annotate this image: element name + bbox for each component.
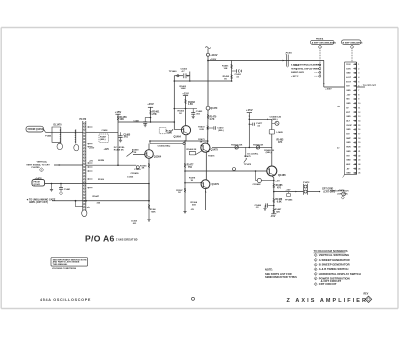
dashed gain box R1460 bbox=[159, 128, 166, 134]
test point TP1485 bbox=[288, 192, 290, 194]
diamond ref 2 bbox=[318, 45, 322, 49]
svg-text:AUX: AUX bbox=[346, 163, 351, 166]
svg-text:→ TO CRT CKT: → TO CRT CKT bbox=[360, 85, 377, 87]
svg-text:+15V: +15V bbox=[147, 102, 154, 106]
connector P1470 pin at y=197.9 bbox=[84, 197, 86, 199]
svg-text:Q1479: Q1479 bbox=[212, 183, 220, 186]
wire x=189 stub bbox=[189, 72, 191, 82]
svg-text:VOLTAGE CONDITIONS: VOLTAGE CONDITIONS bbox=[52, 267, 77, 270]
svg-text:23: 23 bbox=[358, 160, 360, 162]
resistor R1492 bbox=[231, 75, 233, 79]
svg-text:.01: .01 bbox=[256, 207, 260, 209]
legend row 7 bbox=[314, 283, 317, 286]
svg-text:+15V: +15V bbox=[286, 190, 292, 192]
svg-text:Q1485: Q1485 bbox=[278, 173, 286, 177]
connector P1470 pin at y=194.8 bbox=[84, 194, 86, 196]
svg-text:+15V: +15V bbox=[89, 148, 95, 150]
svg-text:A SWEEP GENERATOR: A SWEEP GENERATOR bbox=[319, 258, 350, 262]
legend row 2 bbox=[314, 258, 317, 261]
svg-text:HORIZONTAL DISPLAY MODE: HORIZONTAL DISPLAY MODE bbox=[291, 67, 320, 70]
wire to bulkhead y=132 bbox=[95, 131, 118, 133]
svg-text:Q1464: Q1464 bbox=[174, 136, 182, 139]
potentiometer R1474 bbox=[235, 146, 238, 149]
svg-text:3: 3 bbox=[315, 265, 316, 267]
svg-text:2: 2 bbox=[320, 47, 321, 49]
svg-text:C1458: C1458 bbox=[102, 129, 109, 132]
wire y=81 bbox=[174, 80, 231, 82]
svg-text:(CRT CKT): (CRT CKT) bbox=[338, 194, 348, 196]
terminal circle bbox=[342, 192, 346, 196]
wire to CRT circuit bbox=[307, 191, 320, 193]
wire between coils bbox=[61, 131, 76, 133]
power +15V node bbox=[183, 95, 188, 97]
svg-text:AMPL (CRT CKT): AMPL (CRT CKT) bbox=[29, 201, 48, 204]
svg-text:MATES WITH P1470: MATES WITH P1470 bbox=[330, 190, 349, 193]
wire Q1479 base bbox=[185, 182, 201, 184]
svg-text:GND: GND bbox=[346, 160, 351, 162]
svg-text:-15V: -15V bbox=[270, 215, 276, 218]
svg-text:P/O A6: P/O A6 bbox=[85, 234, 115, 244]
edge connector pin 24 bbox=[353, 163, 356, 165]
svg-text:HORIZONTAL DISPLAY SWITCH: HORIZONTAL DISPLAY SWITCH bbox=[319, 272, 361, 276]
node rail junction bbox=[207, 60, 209, 62]
wire y=171 to Q1485 base bbox=[185, 170, 267, 172]
power +15V node bbox=[148, 106, 153, 108]
legend row 6 bbox=[314, 277, 317, 280]
svg-text:VERTICAL: VERTICAL bbox=[37, 161, 48, 164]
svg-text:C1459: C1459 bbox=[134, 168, 141, 171]
pin arrow at y=127 bbox=[87, 126, 89, 128]
svg-text:-8V: -8V bbox=[346, 168, 350, 170]
svg-text:.001: .001 bbox=[123, 137, 128, 139]
pin arrow at y=167 bbox=[87, 166, 89, 168]
+15V arrow feed bbox=[247, 112, 252, 114]
wire x=149 below unblanking node bbox=[148, 201, 150, 220]
connector P1470 pin at y=148.3 bbox=[84, 148, 86, 150]
connector P1470 pin at y=166.9 bbox=[84, 166, 86, 168]
svg-text:6.8K: 6.8K bbox=[277, 202, 282, 204]
inductor L1485 bbox=[269, 130, 274, 134]
svg-text:8.2K: 8.2K bbox=[200, 129, 205, 131]
svg-text:SWP: SWP bbox=[346, 138, 351, 140]
svg-text:b>: b> bbox=[337, 147, 340, 150]
capacitor C1459 bbox=[136, 166, 139, 169]
svg-text:820: 820 bbox=[276, 211, 280, 213]
edge connector pin 12 bbox=[353, 111, 356, 113]
edge connector pin 22 bbox=[353, 155, 356, 157]
connector P1470 pin at y=129.7 bbox=[84, 129, 86, 131]
diamond ref 1 bbox=[39, 168, 43, 172]
connector P1470 pin at y=176.2 bbox=[84, 175, 86, 177]
svg-text:P1472: P1472 bbox=[303, 181, 310, 184]
wire y=165.2 bbox=[86, 164, 136, 166]
svg-text:(SEL): (SEL) bbox=[100, 139, 106, 141]
delay line coil 1 bbox=[60, 127, 62, 143]
edge connector strip body right bbox=[356, 62, 358, 175]
svg-text:R1474 10K: R1474 10K bbox=[231, 143, 242, 146]
wire y=122 bbox=[118, 121, 174, 123]
svg-text:A SWP (EXTERNAL) BLANKING: A SWP (EXTERNAL) BLANKING bbox=[291, 64, 321, 67]
transistor Q1364 bbox=[145, 150, 154, 159]
transistor Q1485 bbox=[267, 166, 277, 176]
svg-text:15V: 15V bbox=[346, 86, 350, 88]
svg-text:+.6V: +.6V bbox=[275, 180, 280, 182]
selected resistor box R1457 bbox=[99, 134, 109, 142]
svg-text:B SWP UNBLANKG: B SWP UNBLANKG bbox=[343, 41, 363, 44]
svg-text:100K: 100K bbox=[181, 88, 187, 90]
svg-text:3K: 3K bbox=[142, 168, 145, 170]
gate wire y=183.5 bbox=[45, 183, 149, 185]
Q1364 emitter wire down bbox=[148, 158, 150, 201]
edge connector pin 9 bbox=[353, 98, 356, 100]
svg-text:454A OSCILLOSCOPE: 454A OSCILLOSCOPE bbox=[40, 298, 91, 302]
svg-text:75V: 75V bbox=[346, 155, 350, 157]
svg-text:GND: GND bbox=[346, 90, 351, 92]
svg-text:-8V: -8V bbox=[191, 209, 195, 211]
edge connector pin 26 bbox=[353, 172, 356, 174]
edge connector pin 18 bbox=[353, 137, 356, 139]
capacitor C1441 bbox=[60, 184, 62, 188]
potentiometer R1476 bbox=[256, 146, 259, 149]
svg-text:15: 15 bbox=[358, 125, 360, 127]
svg-text:4: 4 bbox=[315, 268, 316, 271]
note box bbox=[51, 258, 88, 267]
svg-text:CR1482: CR1482 bbox=[253, 183, 262, 186]
page border frame (decorative) bbox=[1, 27, 398, 29]
resistor R1487 bbox=[273, 209, 275, 213]
strip bottom closure bbox=[345, 174, 357, 176]
svg-text:P1470: P1470 bbox=[80, 118, 87, 121]
svg-text:2K: 2K bbox=[134, 152, 137, 154]
capacitor C1491 bbox=[232, 70, 236, 72]
svg-text:+ EXT Z: + EXT Z bbox=[291, 76, 299, 78]
svg-text:(SEL): (SEL) bbox=[266, 152, 272, 154]
svg-text:A SWP GEN UNBLANKG: A SWP GEN UNBLANKG bbox=[312, 41, 337, 44]
connector P1470 pin at y=123.5 bbox=[84, 123, 86, 125]
edge connector pin 21 bbox=[353, 150, 356, 152]
svg-text:A & B TIMING SWITCH: A & B TIMING SWITCH bbox=[319, 267, 349, 271]
diode CR1482 bbox=[255, 171, 257, 181]
svg-text:18: 18 bbox=[358, 138, 360, 140]
svg-text:4: 4 bbox=[358, 76, 359, 79]
pin arrow at y=163 bbox=[87, 162, 89, 164]
capacitor C1472 branch bbox=[208, 127, 214, 129]
connector P1470 pin at y=201.0 bbox=[84, 200, 86, 202]
svg-text:9: 9 bbox=[358, 99, 359, 101]
svg-text:L1485: L1485 bbox=[277, 131, 284, 134]
capacitor C1477 bbox=[249, 123, 252, 125]
svg-text:FROM Q1453: FROM Q1453 bbox=[28, 128, 44, 131]
connector P1470 pin at y=135.9 bbox=[84, 135, 86, 137]
inductor L1466 bbox=[189, 151, 195, 155]
svg-text:13: 13 bbox=[358, 116, 360, 118]
connector P1470 pin at y=157.6 bbox=[84, 157, 86, 159]
connector P1470 pin at y=145.2 bbox=[84, 144, 86, 146]
dashed net from diamond 3 bbox=[351, 50, 353, 62]
svg-text:51K: 51K bbox=[192, 205, 196, 207]
page mark circle bbox=[192, 297, 195, 300]
edge connector pin 7 bbox=[353, 89, 356, 91]
edge connector strip body left bbox=[344, 62, 346, 175]
connector P1470 pin at y=182.4 bbox=[84, 182, 86, 184]
pot arrow gain bbox=[168, 130, 173, 133]
svg-text:C1466 (SEL): C1466 (SEL) bbox=[158, 144, 171, 147]
transistor Q1475 bbox=[201, 143, 210, 152]
svg-text:14: 14 bbox=[358, 119, 360, 122]
bus Q1475 to Q1479 bbox=[205, 152, 207, 180]
svg-text:GND: GND bbox=[346, 73, 351, 75]
svg-text:Q1475: Q1475 bbox=[211, 148, 219, 151]
svg-text:26: 26 bbox=[358, 173, 360, 175]
svg-text:.01: .01 bbox=[236, 77, 240, 79]
svg-text:R1466 2K: R1466 2K bbox=[187, 148, 197, 151]
svg-text:Q1364: Q1364 bbox=[154, 156, 162, 159]
edge connector pin 14 bbox=[353, 120, 356, 122]
svg-text:27K: 27K bbox=[152, 113, 157, 116]
svg-text:GND: GND bbox=[346, 151, 351, 153]
svg-text:Q1470: Q1470 bbox=[210, 107, 218, 110]
svg-text:7: 7 bbox=[315, 284, 316, 286]
svg-text:6: 6 bbox=[315, 278, 316, 280]
svg-text:TO UNBLANKING GATE: TO UNBLANKING GATE bbox=[29, 198, 56, 201]
svg-text:TP1475: TP1475 bbox=[244, 163, 252, 166]
test point circle bbox=[272, 122, 275, 124]
svg-text:16: 16 bbox=[358, 129, 360, 131]
svg-text:REV: REV bbox=[364, 294, 369, 296]
connector P1470 pin at y=204.1 bbox=[84, 203, 86, 205]
unblanking wire y=200.8 bbox=[52, 200, 149, 202]
svg-text:-15V: -15V bbox=[346, 94, 351, 96]
pin arrow at y=143.8 bbox=[87, 143, 89, 145]
wire vertical signal bbox=[54, 164, 83, 166]
connector P1470 pin at y=139.0 bbox=[84, 138, 86, 140]
svg-text:.001: .001 bbox=[196, 114, 201, 116]
svg-text:C1366: C1366 bbox=[127, 176, 134, 178]
potentiometer R1459 bbox=[127, 152, 134, 157]
svg-text:GND: GND bbox=[346, 173, 351, 175]
power +15V for R1456 bbox=[115, 113, 120, 115]
edge connector pin 13 bbox=[353, 115, 356, 117]
svg-text:a>: a> bbox=[338, 105, 341, 108]
svg-text:1K: 1K bbox=[191, 180, 194, 182]
svg-text:17: 17 bbox=[358, 134, 360, 136]
connector P1470 pin at y=185.5 bbox=[84, 185, 86, 187]
wire y=143.5 bbox=[150, 143, 183, 145]
connector P1470 pin at y=160.7 bbox=[84, 160, 86, 162]
edge connector pin 4 bbox=[353, 76, 356, 78]
Q1485 collector bbox=[271, 119, 273, 166]
capacitor C1463 bbox=[192, 109, 194, 113]
connector P1470 pin at y=142.1 bbox=[84, 141, 86, 143]
svg-text:1: 1 bbox=[315, 255, 316, 257]
svg-text:330: 330 bbox=[97, 202, 101, 204]
svg-text:7: 7 bbox=[358, 90, 359, 92]
Q1485 emitter wire bbox=[272, 176, 274, 213]
svg-text:+110V: +110V bbox=[210, 53, 218, 57]
svg-text:2: 2 bbox=[315, 260, 316, 262]
legend row 5 bbox=[314, 272, 317, 275]
connector P1470 pin at y=191.7 bbox=[84, 191, 86, 193]
wire branch y=108.5 bbox=[174, 108, 197, 110]
wire to CRT ckt from strip bbox=[357, 86, 366, 88]
svg-text:12: 12 bbox=[358, 112, 360, 114]
svg-text:P1491: P1491 bbox=[286, 52, 293, 55]
resistor R1472 on bus bbox=[207, 126, 209, 130]
svg-text:Z AXIS AMPLIFIER: Z AXIS AMPLIFIER bbox=[287, 298, 369, 304]
svg-text:47K: 47K bbox=[278, 141, 283, 144]
svg-text:19: 19 bbox=[358, 142, 360, 144]
svg-text:EXT: EXT bbox=[346, 112, 351, 114]
edge connector pin 3 bbox=[353, 72, 356, 74]
svg-text:5: 5 bbox=[358, 81, 359, 83]
capacitor C1461 branch bbox=[145, 117, 150, 119]
svg-text:P1465: P1465 bbox=[45, 135, 52, 138]
resistor R1486 bbox=[273, 199, 275, 203]
edge connector pin 8 bbox=[353, 94, 356, 96]
pot arrow R1475 bbox=[244, 159, 247, 163]
svg-text:2: 2 bbox=[358, 68, 359, 70]
svg-text:1K: 1K bbox=[200, 141, 203, 143]
svg-text:GAIN: GAIN bbox=[167, 132, 173, 135]
svg-text:+5V: +5V bbox=[89, 161, 93, 163]
svg-text:PLATES: PLATES bbox=[32, 166, 41, 169]
svg-text:1K: 1K bbox=[179, 113, 182, 115]
edge connector pin 5 bbox=[353, 81, 356, 83]
svg-text:.02: .02 bbox=[257, 125, 261, 127]
wire coil2 to bulkhead bbox=[76, 131, 83, 133]
main rail wire y=60.5 bbox=[208, 60, 324, 62]
connector P1470 pin at y=188.6 bbox=[84, 188, 86, 190]
svg-text:GND: GND bbox=[346, 103, 351, 105]
svg-text:5V: 5V bbox=[346, 107, 349, 109]
svg-text:22: 22 bbox=[358, 155, 360, 157]
svg-text:GND: GND bbox=[346, 142, 351, 144]
svg-text:1.5K: 1.5K bbox=[188, 104, 193, 106]
svg-text:B SWEEP GENERATOR: B SWEEP GENERATOR bbox=[319, 263, 350, 267]
svg-text:3: 3 bbox=[352, 47, 353, 49]
dashed net from diamond 2 bbox=[319, 50, 321, 61]
Q1364 collector wire bbox=[148, 144, 150, 150]
edge connector pin 6 bbox=[353, 85, 356, 87]
svg-text:R1476: R1476 bbox=[208, 155, 215, 158]
junction circle TP1470 bbox=[207, 61, 209, 107]
connector P1470 pin at y=132.8 bbox=[84, 132, 86, 134]
edge connector pin 23 bbox=[353, 159, 356, 161]
edge connector pin 19 bbox=[353, 142, 356, 144]
svg-text:+12V: +12V bbox=[104, 149, 110, 151]
svg-text:4.7K: 4.7K bbox=[210, 118, 215, 121]
connector P1470 pin at y=126.6 bbox=[84, 126, 86, 128]
resistor R1477 bbox=[184, 141, 186, 211]
svg-text:+100V: +100V bbox=[325, 88, 332, 90]
label to unblanking gate bbox=[27, 199, 29, 201]
svg-text:100V: 100V bbox=[346, 68, 351, 70]
capacitor C1465 bbox=[120, 132, 122, 136]
legend row 4 bbox=[314, 268, 317, 271]
diamond ref 3 bbox=[350, 45, 354, 49]
svg-text:SWEEP GATE: SWEEP GATE bbox=[291, 71, 305, 74]
wire y=141 bbox=[150, 140, 208, 142]
svg-text:R1369: R1369 bbox=[98, 179, 105, 181]
svg-text:750: 750 bbox=[188, 167, 193, 169]
connector P1470 pin at y=151.4 bbox=[84, 151, 86, 153]
svg-text:DL1470: DL1470 bbox=[54, 123, 63, 126]
svg-text:B GT: B GT bbox=[346, 81, 352, 83]
svg-text:+15V: +15V bbox=[115, 110, 122, 114]
node x=149 output bus bbox=[148, 184, 150, 201]
legend row 3 bbox=[314, 263, 317, 266]
svg-text:NORM: NORM bbox=[98, 160, 104, 162]
edge connector pin 1 bbox=[353, 63, 356, 65]
ground stub bbox=[51, 184, 53, 190]
svg-text:.001: .001 bbox=[133, 223, 138, 225]
svg-text:GND: GND bbox=[346, 116, 351, 118]
svg-text:3: 3 bbox=[358, 73, 359, 75]
transistor Q1479 bbox=[201, 180, 210, 189]
resistor R1470 bbox=[207, 110, 209, 143]
capacitor C1486 bbox=[268, 205, 274, 207]
svg-text:+105V: +105V bbox=[210, 59, 217, 61]
pin arrow at y=179 bbox=[87, 178, 89, 180]
svg-text:HOR: HOR bbox=[346, 147, 351, 149]
wire rail corner down to strip feed bbox=[323, 61, 325, 88]
svg-text:21: 21 bbox=[358, 151, 360, 153]
connector P1470 pin at y=170.0 bbox=[84, 169, 86, 171]
svg-text:24: 24 bbox=[358, 163, 360, 166]
delay line coil 2 bbox=[75, 129, 77, 143]
wire input to delay line bbox=[44, 129, 46, 132]
svg-text:(SEL): (SEL) bbox=[272, 119, 278, 121]
svg-text:R1447: R1447 bbox=[93, 195, 100, 198]
svg-text:NOTE:: NOTE: bbox=[265, 268, 273, 272]
wire y=147.4 bbox=[212, 146, 272, 148]
power +110V source circle bbox=[207, 53, 210, 56]
junction node bbox=[117, 164, 119, 166]
svg-text:SEMICONDUCTOR TYPES: SEMICONDUCTOR TYPES bbox=[265, 275, 297, 279]
svg-text:11: 11 bbox=[358, 107, 360, 109]
svg-text:+15V: +15V bbox=[246, 108, 253, 112]
svg-text:TP1460: TP1460 bbox=[169, 70, 177, 73]
stub to DC level adj bbox=[245, 147, 247, 157]
strip lower tail curve bbox=[343, 175, 345, 178]
edge connector pin 25 bbox=[353, 168, 356, 170]
fuse F1470 squiggle bbox=[205, 47, 211, 49]
connector P1470 body bbox=[82, 121, 84, 211]
edge connector pin 2 bbox=[353, 68, 356, 70]
svg-text:1K: 1K bbox=[178, 192, 181, 194]
svg-text:1: 1 bbox=[358, 64, 359, 66]
power -15V bbox=[271, 213, 276, 215]
svg-text:(SEL): (SEL) bbox=[218, 130, 224, 132]
pin arrow at y=146.8 bbox=[87, 146, 89, 148]
connector P1470 pin at y=163.8 bbox=[84, 163, 86, 165]
wire Q1464 emitter to bus bbox=[185, 135, 187, 141]
svg-text:Q1043: Q1043 bbox=[34, 183, 41, 186]
wire Q1464 base bbox=[174, 129, 181, 131]
transistor Q1464 bbox=[181, 126, 190, 135]
resistor R1456 bbox=[117, 114, 119, 166]
svg-text:750K: 750K bbox=[151, 211, 156, 213]
svg-text:CR1459: CR1459 bbox=[131, 172, 140, 175]
svg-text:CHOP: CHOP bbox=[346, 125, 352, 127]
svg-text:110V: 110V bbox=[346, 64, 351, 66]
svg-text:25: 25 bbox=[358, 168, 360, 170]
edge connector pin 20 bbox=[353, 146, 356, 148]
svg-text:SIG: SIG bbox=[346, 99, 350, 101]
connector P1470 pin at y=179.3 bbox=[84, 179, 86, 181]
capacitor C1462 bbox=[174, 75, 179, 77]
svg-text:FROM A: FROM A bbox=[316, 37, 324, 40]
